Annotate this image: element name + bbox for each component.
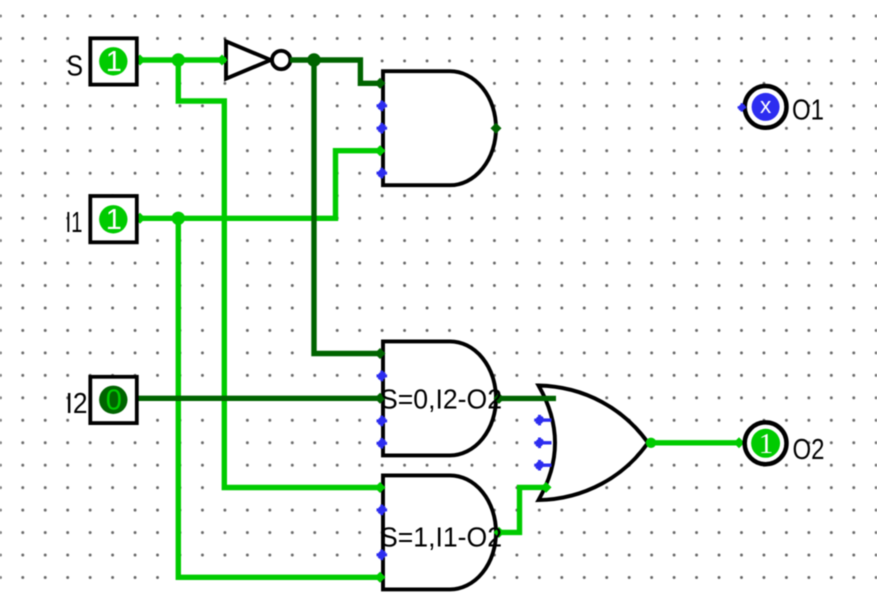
svg-text:1: 1 — [106, 204, 122, 236]
svg-text:x: x — [760, 93, 772, 118]
svg-text:1: 1 — [106, 46, 122, 78]
svg-text:O1: O1 — [792, 94, 824, 126]
svg-text:1: 1 — [759, 428, 774, 460]
svg-text:S=0,I2-O2: S=0,I2-O2 — [380, 384, 502, 415]
svg-text:S: S — [67, 50, 84, 82]
svg-text:I2: I2 — [66, 388, 88, 420]
svg-text:S=1,I1-O2: S=1,I1-O2 — [380, 521, 502, 552]
svg-text:O2: O2 — [793, 434, 825, 466]
svg-text:I1: I1 — [66, 207, 83, 239]
svg-text:0: 0 — [106, 384, 122, 416]
